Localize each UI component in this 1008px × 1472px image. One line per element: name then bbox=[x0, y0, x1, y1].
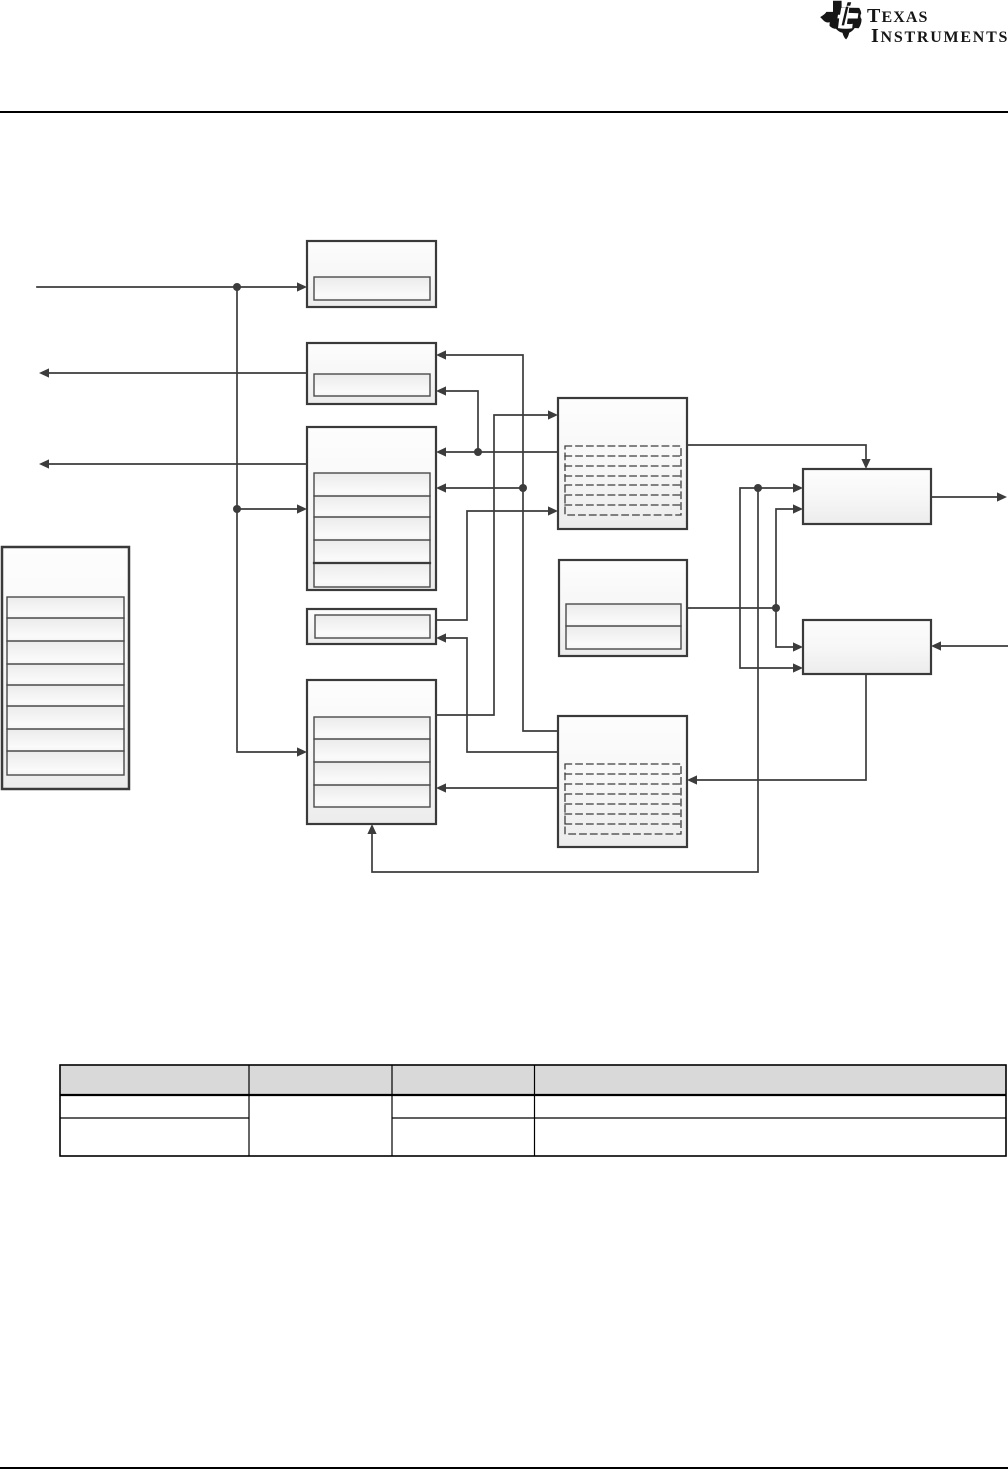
table bbox=[0, 1060, 1008, 1160]
block B outer bbox=[307, 343, 436, 404]
wire K input from right bbox=[931, 641, 1008, 650]
bottom rule bbox=[0, 1467, 1008, 1469]
block K outer bbox=[803, 620, 931, 674]
wire G to H bbox=[687, 445, 871, 469]
diagram svg bbox=[0, 0, 1008, 1060]
junction dot at 758,488 bbox=[754, 484, 762, 492]
block H outer bbox=[803, 469, 931, 524]
table row divider col3 col4 bbox=[392, 1117, 1006, 1119]
wire vertical bus x237 to C and E bbox=[237, 287, 307, 757]
block D inner cell bbox=[315, 615, 430, 638]
junction dot at 478,452 bbox=[474, 448, 482, 456]
wire J to E bbox=[436, 783, 558, 792]
block G outer bbox=[558, 398, 687, 529]
block B inner cell bbox=[314, 374, 430, 396]
block I inner stack bbox=[566, 604, 681, 649]
wire J to B and C bbox=[436, 350, 558, 731]
block A outer bbox=[307, 241, 436, 307]
table header fill bbox=[60, 1065, 1006, 1095]
block E inner stack bbox=[314, 717, 430, 807]
junction dot at 237,509 bbox=[233, 505, 241, 513]
wire D to G bbox=[436, 506, 558, 620]
ti monogram black i dot bbox=[847, 2, 852, 6]
Texas map glyph bbox=[820, 1, 861, 40]
table row divider col1 bbox=[60, 1117, 249, 1119]
table outer border bbox=[60, 1065, 1006, 1156]
wire I to H and K bbox=[687, 504, 803, 651]
junction dot at 776,608 bbox=[772, 604, 780, 612]
wire K to J bbox=[687, 674, 866, 785]
block D outer bbox=[307, 609, 436, 644]
top rule bbox=[0, 111, 1008, 113]
wire input to A bbox=[37, 282, 307, 291]
block J outer bbox=[558, 716, 687, 847]
block I outer bbox=[559, 560, 687, 656]
wire E to G bbox=[436, 410, 558, 715]
table header bottom rule bbox=[60, 1094, 1006, 1096]
wire G to C with branch to B bbox=[436, 386, 558, 456]
wire J to D bbox=[436, 633, 558, 752]
block J dashed stack bbox=[565, 764, 681, 834]
block A inner cell bbox=[314, 277, 430, 300]
block C outer bbox=[307, 427, 436, 590]
wire bus to H K and E bottom bbox=[367, 483, 803, 872]
wire H output bbox=[931, 492, 1007, 501]
wire output from C to left bbox=[39, 459, 307, 468]
junction dot at 523,488 bbox=[519, 484, 527, 492]
block E outer bbox=[307, 680, 436, 824]
ti monogram black i slash bbox=[842, 7, 849, 26]
block F legend outer bbox=[2, 547, 129, 789]
block F inner stack bbox=[7, 597, 124, 775]
block G dashed stack bbox=[565, 446, 681, 515]
TI logo bbox=[815, 0, 1008, 52]
wire output from B to left bbox=[39, 368, 307, 377]
block C inner stack bbox=[314, 473, 430, 587]
junction dot at 237,287 bbox=[233, 283, 241, 291]
table column lines bbox=[249, 1065, 535, 1156]
ti monogram white t bbox=[837, 8, 858, 29]
